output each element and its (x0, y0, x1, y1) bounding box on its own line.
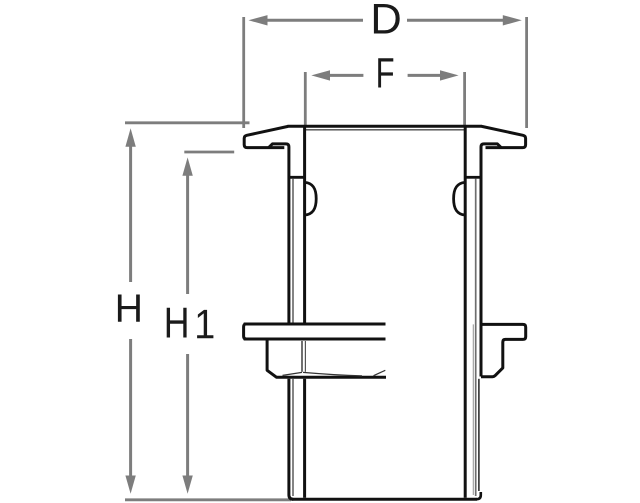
nut outline left half (267, 341, 386, 378)
bore wall left below nut (303, 379, 306, 498)
dimension H extension line top (125, 121, 250, 124)
bottom right corner (477, 492, 481, 499)
dimension F extension line left (304, 72, 307, 126)
nut hidden bore edge thin (304, 341, 306, 372)
dimension D line left segment (265, 19, 363, 22)
label F (378, 58, 393, 87)
outer wall right below nut (thin) (478, 379, 480, 491)
dimension F line right segment (408, 74, 442, 77)
flange top edge (288, 125, 483, 128)
nut chamfer arc thin mid (303, 372, 362, 376)
washer left edge (244, 324, 247, 339)
flange left outline (244, 126, 288, 147)
thread root line left below nut (292, 379, 294, 496)
dimension D extension line right (525, 17, 528, 128)
outer wall left below nut (289, 379, 293, 499)
thread inner hairline right (472, 324, 474, 495)
nut chamfer arc thin left (283, 372, 303, 375)
flange underside step left, into left outer wall (269, 144, 289, 323)
thread root line left (upper) (292, 179, 294, 323)
dimension H arrow top (125, 128, 135, 147)
dimension H line upper segment (129, 145, 132, 282)
nut hex facet edge thin (301, 341, 303, 372)
dimension H1 extension line top (184, 151, 234, 154)
internal lug right (454, 182, 465, 215)
washer and nut cross-section right (481, 324, 526, 376)
flange underside step right, into right outer wall (481, 144, 501, 377)
bottom edge (292, 498, 478, 501)
bore wall left (inner, upper) (303, 127, 306, 323)
thread shoulder line right (465, 176, 481, 179)
baseline extension line bottom (125, 498, 291, 501)
washer top edge left half (244, 323, 386, 326)
nut chamfer arc thin right (374, 370, 386, 375)
dimension D line right segment (407, 19, 505, 22)
dimension D extension line left (242, 17, 245, 128)
dimension H arrow bottom (125, 476, 135, 494)
dimension H1 line lower segment (186, 354, 189, 478)
dimension H1 arrow top (182, 157, 192, 175)
thread root line right (full) (475, 179, 477, 497)
dimension F arrow right (440, 70, 459, 80)
dimension H1 arrow bottom (182, 476, 192, 494)
dimension F extension line right (463, 72, 466, 126)
washer bottom edge left half (244, 338, 386, 341)
dimension H line lower segment (129, 339, 132, 478)
label D (374, 4, 400, 34)
dimension H1 line upper segment (186, 174, 189, 294)
internal lug left (305, 182, 316, 215)
dimension D arrow right (503, 15, 522, 25)
label H1 (167, 308, 187, 338)
flange right outline (482, 126, 526, 147)
bore back edge under flange top (306, 129, 464, 131)
bore wall right (inner, full) (464, 127, 467, 498)
dimension D arrow left (249, 15, 268, 25)
dimension F line left segment (328, 74, 363, 77)
dimension F arrow left (311, 70, 330, 80)
label H (118, 295, 140, 322)
thread shoulder line left (289, 176, 305, 179)
